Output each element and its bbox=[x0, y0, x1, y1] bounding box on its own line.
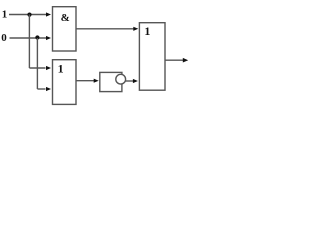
wire branch J2 to OR pin 2 bbox=[37, 87, 51, 91]
wire input-0 horizontal to AND pin 2 bbox=[10, 36, 52, 40]
wire input-1 horizontal to AND pin 1 bbox=[9, 12, 51, 16]
wire U2 output to inverter U3 bbox=[76, 79, 99, 83]
wire branch from J2 down bbox=[36, 38, 38, 89]
inverter U3 box bbox=[100, 72, 122, 91]
wire U1 output to U4 pin 1 bbox=[76, 27, 138, 31]
junction J2 on input-0 wire bbox=[35, 35, 39, 39]
wire U4 output bbox=[165, 58, 188, 63]
junction J1 on input-1 wire bbox=[27, 13, 31, 17]
AND gate U1 box bbox=[53, 7, 77, 51]
wire U3 output to U4 pin 2 bbox=[125, 79, 137, 83]
OR gate U2 label 1 bbox=[58, 61, 64, 75]
OR gate U4 label 1 bbox=[144, 24, 150, 38]
wire branch J1 to OR pin 1 bbox=[29, 66, 51, 70]
svg-text:1: 1 bbox=[2, 9, 8, 21]
wire branch from J1 down bbox=[28, 15, 30, 69]
svg-text:0: 0 bbox=[1, 32, 7, 44]
inverter U3 bubble bbox=[116, 74, 126, 84]
svg-text:&: & bbox=[61, 12, 70, 24]
node input 1 label bbox=[2, 9, 8, 21]
node input 0 label bbox=[1, 32, 7, 44]
AND gate U1 label & bbox=[61, 12, 70, 24]
OR gate U4 box bbox=[139, 23, 165, 91]
svg-text:1: 1 bbox=[58, 61, 64, 75]
OR gate U2 box bbox=[53, 60, 77, 105]
svg-text:1: 1 bbox=[144, 24, 150, 38]
